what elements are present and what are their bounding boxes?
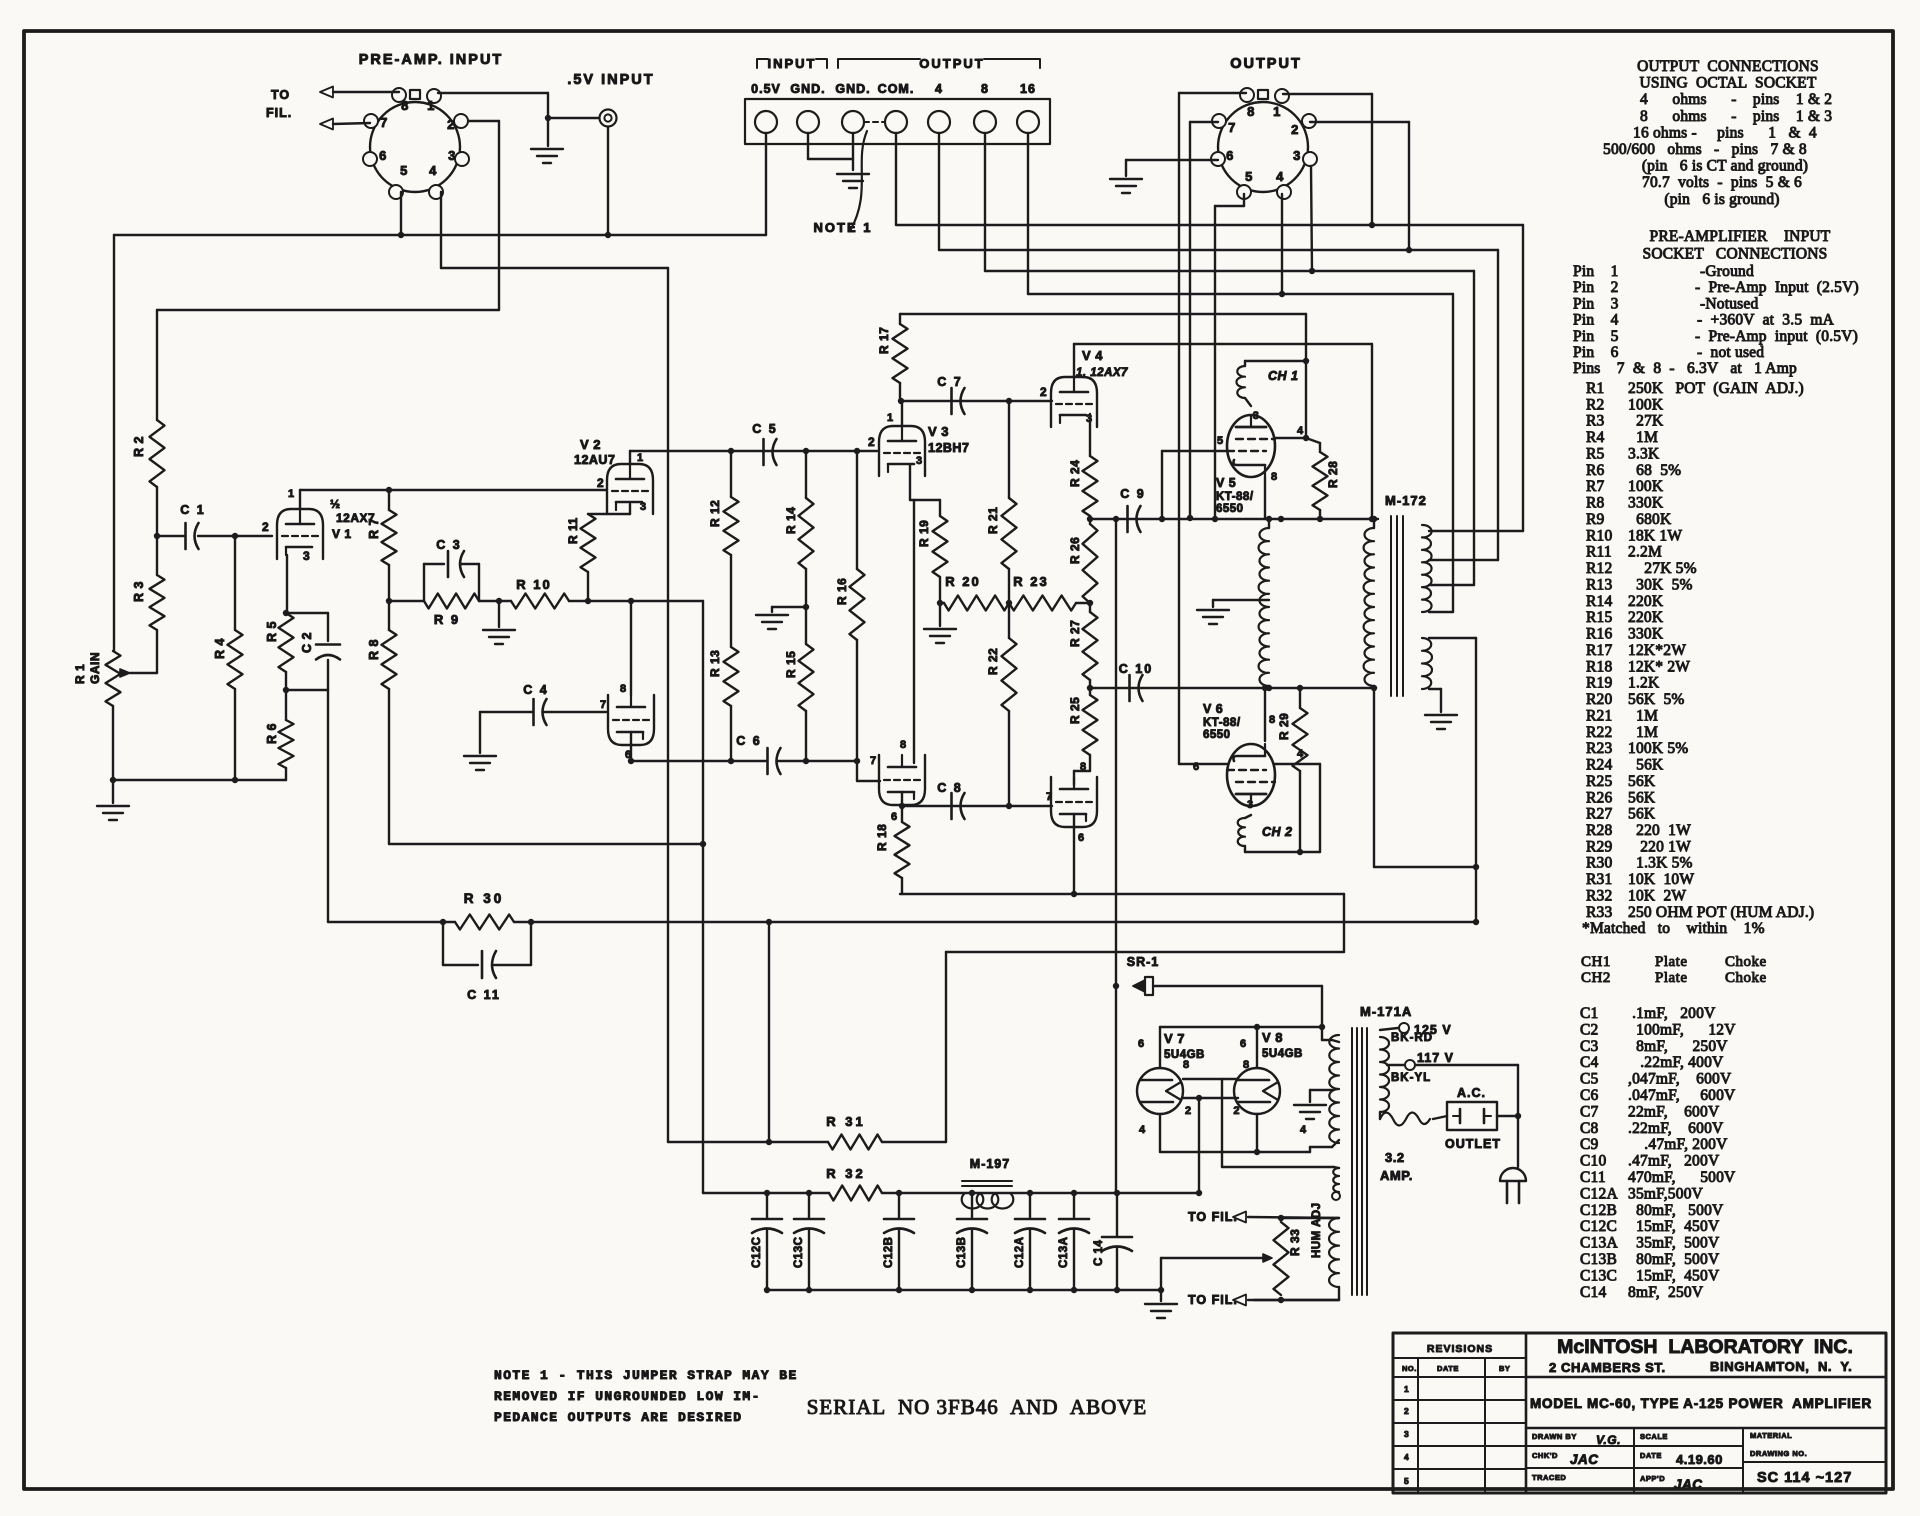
svg-text:6: 6 — [1226, 148, 1234, 163]
svg-text:R16: R16 — [1586, 626, 1612, 643]
svg-text:V 1: V 1 — [332, 527, 352, 541]
svg-text:1.3K 5%: 1.3K 5% — [1628, 855, 1693, 872]
svg-text:,047mF, 600V: ,047mF, 600V — [1628, 1071, 1732, 1088]
svg-text:220K: 220K — [1628, 593, 1664, 610]
svg-text:V 2: V 2 — [580, 437, 601, 452]
svg-text:V 4: V 4 — [1082, 348, 1103, 363]
svg-text:C 3: C 3 — [436, 538, 461, 552]
svg-text:R 16: R 16 — [835, 578, 849, 605]
svg-text:R2: R2 — [1586, 396, 1605, 413]
svg-text:2: 2 — [597, 476, 604, 490]
svg-text:Pin 2: Pin 2 — [1573, 279, 1619, 296]
svg-text:-Ground: -Ground — [1700, 263, 1754, 280]
svg-text:8: 8 — [620, 683, 627, 695]
svg-text:C11: C11 — [1580, 1169, 1606, 1186]
svg-text:R 24: R 24 — [1068, 460, 1082, 487]
svg-text:8 ohms - pins: 8 ohms - pins 1 & 3 — [1640, 108, 1832, 125]
svg-text:BY: BY — [1499, 1364, 1510, 1373]
svg-text:R 3: R 3 — [132, 581, 146, 602]
svg-text:6: 6 — [1078, 832, 1085, 844]
svg-text:68 5%: 68 5% — [1628, 462, 1681, 479]
svg-text:R 14: R 14 — [784, 507, 798, 534]
svg-text:Pin 6: Pin 6 — [1573, 344, 1619, 361]
svg-text:R14: R14 — [1586, 593, 1612, 610]
svg-text:100K: 100K — [1628, 478, 1664, 495]
svg-text:4: 4 — [1139, 1124, 1146, 1136]
svg-text:R 21: R 21 — [986, 507, 1000, 534]
svg-text:7: 7 — [380, 115, 388, 130]
svg-text:8: 8 — [1243, 1059, 1250, 1071]
svg-text:6: 6 — [891, 811, 898, 823]
svg-text:3: 3 — [916, 455, 923, 467]
svg-text:V 3: V 3 — [928, 424, 949, 439]
svg-text:70.7 volts - pins 5 & 6: 70.7 volts - pins 5 & 6 — [1642, 174, 1802, 191]
svg-text:C 8: C 8 — [937, 781, 962, 795]
svg-text:R 7: R 7 — [367, 518, 381, 539]
svg-text:C12A: C12A — [1580, 1185, 1618, 1202]
svg-text:SC 114 ~127: SC 114 ~127 — [1757, 1470, 1852, 1486]
svg-text:C 4: C 4 — [523, 683, 548, 697]
svg-text:JAC: JAC — [1570, 1452, 1599, 1467]
svg-text:C2: C2 — [1580, 1021, 1599, 1038]
svg-text:15mF, 450V: 15mF, 450V — [1628, 1218, 1720, 1235]
svg-text:C1: C1 — [1580, 1005, 1599, 1022]
svg-text:DRAWING NO.: DRAWING NO. — [1750, 1449, 1807, 1458]
svg-text:BK-YL: BK-YL — [1391, 1072, 1431, 1084]
svg-text:INPUT: INPUT — [768, 56, 817, 71]
svg-text:5: 5 — [1245, 169, 1253, 184]
svg-text:R 10: R 10 — [516, 577, 551, 592]
svg-text:R 19: R 19 — [917, 520, 931, 547]
svg-text:6550: 6550 — [1216, 503, 1244, 515]
svg-text:4: 4 — [1404, 1452, 1409, 1462]
svg-text:R 29: R 29 — [1277, 713, 1291, 740]
svg-text:- Pre-Amp input (0.5V): - Pre-Amp input (0.5V) — [1695, 328, 1858, 345]
svg-text:V 8: V 8 — [1262, 1030, 1283, 1045]
svg-text:R32: R32 — [1586, 887, 1612, 904]
svg-text:- Pre-Amp Input (2.5V): - Pre-Amp Input (2.5V) — [1695, 279, 1859, 296]
svg-text:.22mF, 400V: .22mF, 400V — [1628, 1054, 1724, 1071]
svg-text:10K 10W: 10K 10W — [1628, 871, 1694, 888]
svg-text:3: 3 — [1253, 410, 1260, 422]
svg-text:½: ½ — [330, 497, 341, 511]
svg-text:8: 8 — [981, 82, 989, 96]
svg-text:R22: R22 — [1586, 724, 1612, 741]
svg-text:27K 5%: 27K 5% — [1628, 560, 1697, 577]
svg-text:R 2: R 2 — [132, 436, 146, 457]
svg-text:- not used: - not used — [1697, 344, 1764, 361]
svg-text:1.2K: 1.2K — [1628, 675, 1660, 692]
svg-text:8: 8 — [1183, 1059, 1190, 1071]
svg-text:2: 2 — [868, 435, 875, 449]
svg-text:56K: 56K — [1628, 806, 1656, 823]
svg-text:18K 1W: 18K 1W — [1628, 527, 1682, 544]
svg-text:R11: R11 — [1586, 544, 1612, 561]
svg-text:DATE: DATE — [1437, 1364, 1459, 1373]
svg-text:2: 2 — [1291, 122, 1299, 137]
svg-text:R 31: R 31 — [826, 1114, 865, 1129]
svg-text:OUTPUT: OUTPUT — [919, 56, 984, 71]
svg-text:.22mF, 600V: .22mF, 600V — [1628, 1120, 1724, 1137]
svg-text:R 15: R 15 — [784, 651, 798, 678]
svg-text:6550: 6550 — [1203, 729, 1231, 741]
svg-text:8mF, 250V: 8mF, 250V — [1628, 1038, 1728, 1055]
svg-text:SOCKET CONNECTIONS: SOCKET CONNECTIONS — [1643, 246, 1828, 263]
svg-text:R 22: R 22 — [986, 648, 1000, 675]
svg-text:SCALE: SCALE — [1640, 1432, 1668, 1441]
svg-text:56K 5%: 56K 5% — [1628, 691, 1685, 708]
svg-text:Choke: Choke — [1725, 954, 1767, 970]
svg-text:30K 5%: 30K 5% — [1628, 576, 1693, 593]
svg-text:C12C: C12C — [1580, 1218, 1617, 1235]
svg-text:V 5: V 5 — [1216, 476, 1236, 490]
svg-text:R7: R7 — [1586, 478, 1605, 495]
svg-text:3: 3 — [1404, 1429, 1409, 1439]
svg-text:3.3K: 3.3K — [1628, 445, 1660, 462]
svg-text:8: 8 — [1080, 761, 1087, 773]
svg-text:R 27: R 27 — [1068, 620, 1082, 647]
svg-text:C 9: C 9 — [1120, 487, 1145, 501]
svg-text:1M: 1M — [1628, 724, 1658, 741]
svg-text:12AU7: 12AU7 — [574, 453, 615, 467]
svg-text:100K: 100K — [1628, 396, 1664, 413]
svg-text:R1: R1 — [1586, 380, 1605, 397]
svg-text:C6: C6 — [1580, 1087, 1599, 1104]
svg-text:2: 2 — [447, 117, 455, 132]
svg-text:2: 2 — [1233, 1105, 1240, 1117]
svg-text:5: 5 — [1217, 435, 1224, 447]
svg-text:C13A: C13A — [1058, 1237, 1070, 1268]
svg-text:C12C: C12C — [751, 1237, 763, 1268]
svg-text:8: 8 — [1271, 471, 1278, 483]
svg-text:56K: 56K — [1628, 773, 1656, 790]
svg-text:7: 7 — [870, 755, 877, 767]
svg-text:R 5: R 5 — [265, 621, 279, 642]
svg-text:AMP.: AMP. — [1380, 1168, 1413, 1183]
svg-text:R 32: R 32 — [826, 1166, 865, 1181]
svg-text:CH 1: CH 1 — [1268, 369, 1298, 383]
svg-text:250K POT (GAIN ADJ.): 250K POT (GAIN ADJ.) — [1628, 380, 1804, 397]
svg-text:330K: 330K — [1628, 495, 1664, 512]
svg-text:6: 6 — [1138, 1038, 1145, 1050]
svg-text:C13B: C13B — [1580, 1251, 1617, 1268]
svg-text:8: 8 — [401, 98, 409, 113]
svg-text:R15: R15 — [1586, 609, 1612, 626]
svg-text:117 V: 117 V — [1417, 1051, 1454, 1065]
svg-text:R28: R28 — [1586, 822, 1612, 839]
svg-text:NOTE 1: NOTE 1 — [814, 220, 873, 235]
svg-text:4 ohms - pins: 4 ohms - pins 1 & 2 — [1640, 91, 1832, 108]
svg-text:SR-1: SR-1 — [1127, 955, 1159, 969]
svg-text:R 30: R 30 — [464, 891, 505, 906]
svg-text:3: 3 — [640, 501, 647, 513]
svg-text:3: 3 — [1247, 799, 1254, 811]
svg-text:5: 5 — [1404, 1476, 1409, 1486]
svg-text:1: 1 — [288, 488, 295, 500]
svg-text:R 8: R 8 — [367, 639, 381, 660]
svg-text:16: 16 — [1020, 82, 1036, 96]
svg-text:R17: R17 — [1586, 642, 1612, 659]
svg-text:C8: C8 — [1580, 1120, 1599, 1137]
svg-text:7: 7 — [1046, 791, 1053, 803]
svg-text:10K 2W: 10K 2W — [1628, 887, 1686, 904]
svg-text:2 CHAMBERS ST.: 2 CHAMBERS ST. — [1549, 1360, 1666, 1375]
svg-text:C 11: C 11 — [467, 988, 501, 1002]
svg-text:C5: C5 — [1580, 1071, 1599, 1088]
svg-text:C13A: C13A — [1580, 1235, 1618, 1252]
svg-text:C 7: C 7 — [937, 375, 962, 389]
svg-text:R 33: R 33 — [1288, 1229, 1302, 1256]
svg-text:C13C: C13C — [1580, 1267, 1617, 1284]
svg-text:680K: 680K — [1628, 511, 1672, 528]
svg-text:C3: C3 — [1580, 1038, 1599, 1055]
svg-text:330K: 330K — [1628, 626, 1664, 643]
svg-text:12K* 2W: 12K* 2W — [1628, 658, 1690, 675]
svg-text:MATERIAL: MATERIAL — [1750, 1431, 1792, 1440]
svg-text:- +360V at 3.5 mA: - +360V at 3.5 mA — [1697, 312, 1835, 329]
svg-text:R 18: R 18 — [875, 824, 889, 851]
svg-text:M-171A: M-171A — [1360, 1004, 1412, 1019]
svg-text:PRE-AMPLIFIER INPUT: PRE-AMPLIFIER INPUT — [1650, 228, 1831, 245]
svg-text:R 9: R 9 — [434, 612, 460, 627]
svg-text:.5V INPUT: .5V INPUT — [567, 72, 654, 88]
svg-text:R27: R27 — [1586, 806, 1612, 823]
svg-text:CH 2: CH 2 — [1262, 825, 1292, 839]
svg-text:TRACED: TRACED — [1532, 1473, 1566, 1482]
svg-text:12BH7: 12BH7 — [928, 441, 969, 455]
svg-text:15mF, 450V: 15mF, 450V — [1628, 1267, 1720, 1284]
svg-text:1M: 1M — [1628, 707, 1658, 724]
svg-text:GND.: GND. — [790, 82, 825, 96]
svg-text:C12B: C12B — [883, 1237, 895, 1268]
svg-text:R30: R30 — [1586, 855, 1612, 872]
svg-text:-Notused: -Notused — [1700, 295, 1758, 312]
svg-text:1, 12AX7: 1, 12AX7 — [1076, 367, 1128, 379]
svg-text:TO FIL.: TO FIL. — [1188, 1293, 1238, 1307]
svg-text:Pin 4: Pin 4 — [1573, 312, 1619, 329]
svg-text:R29: R29 — [1586, 838, 1612, 855]
svg-text:R9: R9 — [1586, 511, 1605, 528]
svg-text:R 13: R 13 — [708, 650, 722, 677]
svg-text:R 23: R 23 — [1013, 574, 1048, 589]
svg-text:GAIN: GAIN — [88, 652, 102, 684]
svg-text:M-197: M-197 — [970, 1157, 1010, 1171]
svg-text:7: 7 — [1228, 120, 1236, 135]
svg-text:R 12: R 12 — [708, 500, 722, 527]
svg-text:R12: R12 — [1586, 560, 1612, 577]
svg-text:R 26: R 26 — [1068, 537, 1082, 564]
svg-text:.47mF, 200V: .47mF, 200V — [1628, 1153, 1720, 1170]
svg-text:R18: R18 — [1586, 658, 1612, 675]
svg-text:C 5: C 5 — [752, 422, 777, 436]
svg-text:3: 3 — [303, 549, 310, 563]
svg-text:R6: R6 — [1586, 462, 1605, 479]
svg-text:8: 8 — [900, 739, 907, 751]
svg-text:80mF, 500V: 80mF, 500V — [1628, 1202, 1724, 1219]
svg-text:V.G.: V.G. — [1596, 1433, 1621, 1447]
svg-text:BK-RD: BK-RD — [1391, 1032, 1433, 1044]
svg-text:R33: R33 — [1586, 904, 1612, 921]
svg-text:R 17: R 17 — [877, 327, 891, 354]
svg-text:1: 1 — [637, 452, 644, 464]
svg-text:C 10: C 10 — [1119, 662, 1153, 676]
svg-text:R19: R19 — [1586, 675, 1612, 692]
svg-text:R4: R4 — [1586, 429, 1605, 446]
svg-text:CH2: CH2 — [1581, 970, 1611, 986]
svg-text:A.C.: A.C. — [1457, 1086, 1486, 1100]
svg-text:PRE-AMP. INPUT: PRE-AMP. INPUT — [359, 52, 504, 68]
svg-text:R 11: R 11 — [566, 517, 580, 544]
svg-text:C12B: C12B — [1580, 1202, 1617, 1219]
svg-text:4: 4 — [1276, 169, 1284, 184]
svg-text:NO.: NO. — [1402, 1364, 1417, 1373]
svg-text:56K: 56K — [1628, 757, 1664, 774]
svg-text:V 6: V 6 — [1203, 702, 1223, 716]
svg-text:27K: 27K — [1628, 413, 1664, 430]
svg-text:2.2M: 2.2M — [1628, 544, 1662, 561]
svg-text:3: 3 — [1293, 148, 1301, 163]
svg-text:C7: C7 — [1580, 1103, 1599, 1120]
svg-text:CH1: CH1 — [1581, 954, 1611, 970]
svg-text:6: 6 — [379, 148, 387, 163]
svg-text:250 OHM POT (HUM ADJ.): 250 OHM POT (HUM ADJ.) — [1628, 904, 1814, 921]
svg-text:TO FIL.: TO FIL. — [1188, 1210, 1238, 1224]
svg-text:C 6: C 6 — [736, 734, 761, 748]
svg-text:R13: R13 — [1586, 576, 1612, 593]
svg-text:C 2: C 2 — [300, 632, 314, 653]
svg-text:1: 1 — [1404, 1384, 1409, 1394]
svg-text:*Matched to within 1%: *Matched to within 1% — [1582, 920, 1765, 937]
svg-text:Pin 1: Pin 1 — [1573, 263, 1619, 280]
svg-text:R23: R23 — [1586, 740, 1612, 757]
svg-text:R21: R21 — [1586, 707, 1612, 724]
svg-text:C 1: C 1 — [180, 503, 205, 517]
svg-text:5: 5 — [400, 163, 408, 178]
svg-text:DRAWN BY: DRAWN BY — [1532, 1432, 1577, 1441]
svg-text:DATE: DATE — [1640, 1451, 1662, 1460]
svg-text:35mF,500V: 35mF,500V — [1628, 1185, 1704, 1202]
svg-text:PEDANCE OUTPUTS ARE DESIRED: PEDANCE OUTPUTS ARE DESIRED — [494, 1410, 742, 1425]
svg-text:USING OCTAL SOCKET: USING OCTAL SOCKET — [1640, 75, 1817, 92]
svg-text:R 1: R 1 — [73, 664, 87, 684]
svg-text:R 6: R 6 — [265, 723, 279, 744]
svg-text:SERIAL NO 3FB46 AND ABOVE: SERIAL NO 3FB46 AND ABOVE — [807, 1395, 1148, 1419]
svg-text:C13B: C13B — [956, 1237, 968, 1268]
svg-text:7: 7 — [600, 699, 607, 711]
svg-text:8: 8 — [1247, 104, 1255, 119]
svg-text:4.19.60: 4.19.60 — [1676, 1452, 1723, 1467]
svg-text:REVISIONS: REVISIONS — [1427, 1343, 1493, 1355]
svg-text:4: 4 — [1300, 1124, 1307, 1136]
svg-text:Choke: Choke — [1725, 970, 1767, 986]
svg-text:C 14: C 14 — [1093, 1240, 1105, 1266]
svg-text:470mF, 500V: 470mF, 500V — [1628, 1169, 1736, 1186]
svg-text:R 4: R 4 — [213, 638, 227, 659]
svg-text:NOTE 1 - THIS JUMPER STRAP MAY: NOTE 1 - THIS JUMPER STRAP MAY BE — [494, 1368, 798, 1383]
svg-text:5U4GB: 5U4GB — [1262, 1048, 1303, 1060]
svg-text:KT-88/: KT-88/ — [1203, 717, 1241, 729]
svg-text:6: 6 — [1240, 1038, 1247, 1050]
svg-text:8mF, 250V: 8mF, 250V — [1628, 1284, 1704, 1301]
svg-text:R5: R5 — [1586, 445, 1605, 462]
svg-text:22mF, 600V: 22mF, 600V — [1628, 1103, 1720, 1120]
svg-text:6: 6 — [1193, 761, 1200, 773]
svg-text:.047mF, 600V: .047mF, 600V — [1628, 1087, 1736, 1104]
svg-text:100K 5%: 100K 5% — [1628, 740, 1688, 757]
svg-text:.47mF, 200V: .47mF, 200V — [1628, 1136, 1728, 1153]
svg-text:MᴄINTOSH LABORATORY INC.: MᴄINTOSH LABORATORY INC. — [1557, 1336, 1853, 1358]
svg-text:R31: R31 — [1586, 871, 1612, 888]
svg-text:C4: C4 — [1580, 1054, 1599, 1071]
svg-text:4: 4 — [1297, 425, 1304, 437]
svg-text:C9: C9 — [1580, 1136, 1599, 1153]
svg-text:16 ohms - pins 1 &: 16 ohms - pins 1 & 4 — [1633, 124, 1817, 141]
svg-text:220 1W: 220 1W — [1628, 838, 1691, 855]
svg-text:Pin 3: Pin 3 — [1573, 295, 1619, 312]
svg-text:COM.: COM. — [878, 82, 915, 96]
svg-text:56K: 56K — [1628, 789, 1656, 806]
svg-text:OUTLET: OUTLET — [1445, 1137, 1501, 1151]
svg-text:4: 4 — [429, 163, 437, 178]
svg-text:BINGHAMTON, N. Y.: BINGHAMTON, N. Y. — [1710, 1359, 1852, 1374]
svg-text:8: 8 — [1269, 714, 1276, 726]
svg-text:R26: R26 — [1586, 789, 1612, 806]
svg-text:KT-88/: KT-88/ — [1216, 491, 1254, 503]
svg-text:V 7: V 7 — [1164, 1031, 1185, 1046]
svg-text:3: 3 — [448, 148, 456, 163]
svg-text:2: 2 — [1404, 1406, 1409, 1416]
svg-text:220K: 220K — [1628, 609, 1664, 626]
svg-text:MODEL MC-60, TYPE A-125 POWER: MODEL MC-60, TYPE A-125 POWER AMPLIFIER — [1530, 1396, 1872, 1411]
svg-text:OUTPUT CONNECTIONS: OUTPUT CONNECTIONS — [1637, 58, 1819, 75]
svg-text:HUM ADJ: HUM ADJ — [1311, 1203, 1323, 1258]
svg-text:.1mF, 200V: .1mF, 200V — [1628, 1005, 1716, 1022]
svg-text:APP'D: APP'D — [1640, 1474, 1665, 1483]
svg-text:2: 2 — [1185, 1105, 1192, 1117]
svg-text:Pins 7 & 8 - 6.3V at: Pins 7 & 8 - 6.3V at 1 Amp — [1573, 360, 1797, 377]
svg-text:Plate: Plate — [1655, 970, 1688, 986]
svg-text:R 28: R 28 — [1326, 461, 1340, 488]
svg-text:100mF, 12V: 100mF, 12V — [1628, 1021, 1736, 1038]
svg-text:1: 1 — [1273, 104, 1281, 119]
svg-text:1M: 1M — [1628, 429, 1658, 446]
svg-text:35mF, 500V: 35mF, 500V — [1628, 1235, 1720, 1252]
svg-text:C13C: C13C — [793, 1237, 805, 1268]
svg-text:500/600 ohms - pins 7: 500/600 ohms - pins 7 & 8 — [1603, 141, 1807, 158]
svg-text:R10: R10 — [1586, 527, 1612, 544]
svg-text:R20: R20 — [1586, 691, 1612, 708]
svg-text:(pin 6 is ground): (pin 6 is ground) — [1664, 191, 1779, 208]
svg-text:R24: R24 — [1586, 757, 1612, 774]
svg-text:JAC: JAC — [1674, 1477, 1703, 1492]
svg-text:R 25: R 25 — [1068, 697, 1082, 724]
svg-text:(pin 6 is CT and ground): (pin 6 is CT and ground) — [1642, 158, 1808, 175]
svg-text:GND.: GND. — [835, 82, 870, 96]
svg-text:2: 2 — [262, 520, 269, 534]
svg-text:2: 2 — [1040, 385, 1047, 399]
svg-text:TO: TO — [271, 88, 290, 102]
svg-text:OUTPUT: OUTPUT — [1230, 56, 1302, 72]
svg-text:80mF, 500V: 80mF, 500V — [1628, 1251, 1720, 1268]
svg-text:3.2: 3.2 — [1385, 1150, 1405, 1165]
svg-text:220 1W: 220 1W — [1628, 822, 1691, 839]
svg-text:12K*2W: 12K*2W — [1628, 642, 1686, 659]
svg-text:R25: R25 — [1586, 773, 1612, 790]
svg-text:CHK'D: CHK'D — [1532, 1451, 1558, 1460]
svg-text:Plate: Plate — [1655, 954, 1688, 970]
svg-text:C10: C10 — [1580, 1153, 1606, 1170]
svg-text:1: 1 — [887, 412, 894, 424]
